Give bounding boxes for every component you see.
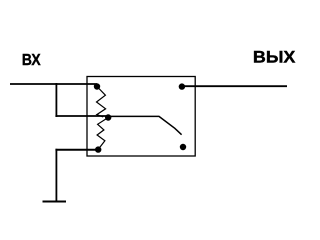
svg-text:ВХ: ВХ: [22, 52, 41, 69]
node: top-left junction: [94, 83, 100, 89]
resistor R2 (lower zigzag): [97, 118, 108, 150]
wire: vertical branch from input: [55, 83, 57, 117]
ground: [43, 201, 67, 203]
switch arm (from middle node toward lower-right contact): [108, 116, 182, 134]
node: bottom-right contact: [180, 144, 186, 150]
wire: output lead to the right: [182, 85, 287, 87]
node: middle junction: [105, 114, 111, 120]
svg-text:ВЫХ: ВЫХ: [253, 49, 296, 67]
node: bottom-left junction: [95, 146, 101, 152]
wire: horizontal into middle node: [55, 115, 108, 117]
wire: vertical down to ground: [55, 149, 57, 202]
enclosure box (relay/attenuator body): [87, 77, 195, 157]
resistor R1 (upper zigzag): [97, 87, 106, 118]
wire: input lead from left: [10, 83, 97, 85]
node: top-right junction: [179, 83, 185, 89]
wire: horizontal into bottom node: [55, 149, 98, 151]
